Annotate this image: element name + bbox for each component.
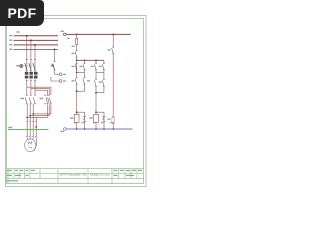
- svg-text:DPF-Nepalan 08: DPF-Nepalan 08: [60, 172, 87, 176]
- svg-text:Bokja 3 m.ps: Bokja 3 m.ps: [90, 172, 110, 176]
